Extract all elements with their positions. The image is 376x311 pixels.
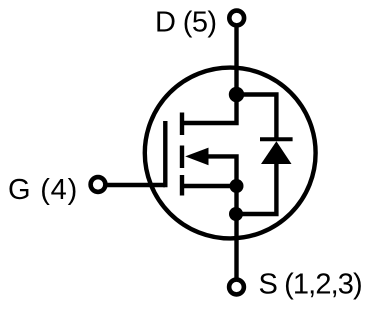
channel bar body segment	[180, 146, 184, 169]
wire source bar to source node	[182, 184, 237, 188]
gate lead wire from G terminal	[107, 183, 166, 187]
wire body connection to source	[207, 156, 237, 186]
diode D1 cathode bar	[260, 137, 293, 141]
gate electrode vertical line	[163, 121, 167, 187]
terminal G pin circle	[91, 177, 106, 192]
node lower junction dot	[229, 207, 243, 221]
body arrow (points to channel)	[185, 148, 208, 166]
wire drain vertical from D terminal to drain corner	[182, 27, 237, 123]
wire source node down to S terminal	[234, 186, 238, 278]
wire diode anode branch to lower node	[237, 164, 277, 214]
svg-text:G (4): G (4)	[8, 174, 78, 206]
terminal S pin circle	[229, 280, 244, 295]
node source junction dot	[230, 179, 244, 193]
channel bar source segment	[180, 175, 184, 196]
terminal D pin circle	[229, 11, 244, 26]
node drain junction dot	[229, 87, 244, 102]
channel bar drain segment	[180, 113, 184, 136]
diode D1 triangle (anode)	[261, 141, 292, 164]
svg-text:D (5): D (5)	[155, 7, 216, 39]
svg-text:S (1,2,3): S (1,2,3)	[259, 268, 362, 300]
wire drain to diode cathode branch	[237, 95, 277, 141]
transistor body circle	[145, 68, 316, 239]
